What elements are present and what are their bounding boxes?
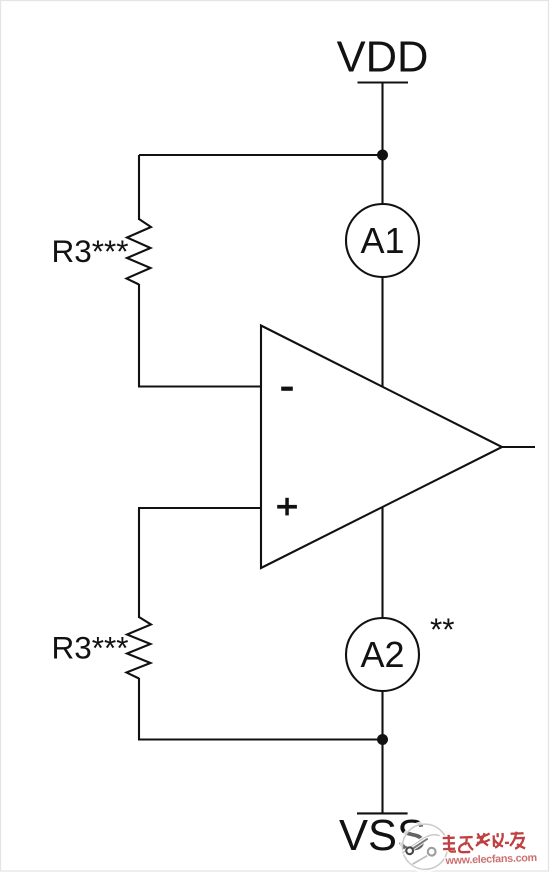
svg-text:R3***: R3*** xyxy=(52,630,129,666)
svg-text:VDD: VDD xyxy=(337,34,429,82)
svg-text:R3***: R3*** xyxy=(52,233,129,269)
svg-text:A1: A1 xyxy=(360,220,404,261)
svg-text:**: ** xyxy=(430,611,455,647)
svg-text:www.elecfans.com: www.elecfans.com xyxy=(444,852,537,867)
svg-text:A2: A2 xyxy=(360,634,404,675)
